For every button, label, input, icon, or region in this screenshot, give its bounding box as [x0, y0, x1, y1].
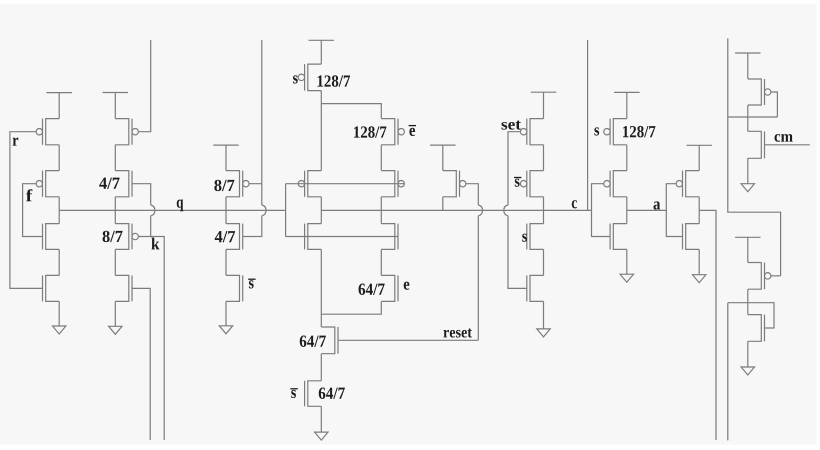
- nmos f: [43, 224, 60, 250]
- pmos 128/7 s (col F): [604, 119, 627, 145]
- wire top-right input vertical: [728, 38, 781, 275]
- wire: [380, 145, 382, 171]
- pmos a input (col G): [676, 171, 699, 197]
- label k: [151, 238, 159, 250]
- pmos 8/7 (col C): [226, 171, 249, 197]
- wire: [698, 197, 700, 224]
- power VDD rail col D: [309, 40, 335, 64]
- nmos pair right: [381, 224, 398, 250]
- label 8/7 col B: [103, 231, 123, 242]
- ground col E: [537, 301, 550, 337]
- wire: [543, 249, 545, 275]
- nmos 64/7 e: [381, 275, 398, 301]
- ground top-right: [741, 158, 754, 191]
- wire 4/7 gate down with hop over q bus: [132, 184, 155, 237]
- label q: [177, 199, 184, 211]
- power VDD rail col B: [103, 93, 129, 119]
- label cm: [775, 134, 793, 142]
- wire: [380, 249, 382, 275]
- wire col C input vertical from top with hop: [243, 40, 266, 237]
- label sbar bottom: [290, 389, 297, 398]
- nmos 4/7 (col C): [226, 224, 243, 250]
- wire: [320, 104, 322, 171]
- pmos reset pull-up: [443, 171, 466, 197]
- wire reset net: [338, 339, 478, 341]
- wire q bus: [59, 209, 285, 211]
- power VDD rail col F: [614, 92, 640, 118]
- pmos pair left: [298, 171, 321, 197]
- wire: [58, 145, 60, 171]
- wire: [626, 145, 628, 171]
- wire bottom-left port: [727, 303, 729, 441]
- ground col B: [109, 301, 122, 334]
- label r: [13, 138, 19, 146]
- nmos 64/7 reset: [321, 327, 338, 354]
- wire set gate net with hop: [504, 132, 527, 289]
- wire: [626, 197, 628, 224]
- nmos cm: [748, 131, 765, 158]
- ground col D: [315, 406, 328, 440]
- pmos f: [36, 171, 59, 197]
- power VDD rail col C: [213, 145, 239, 171]
- power VDD rail col A: [46, 93, 71, 119]
- wire c gate net col F: [592, 184, 611, 237]
- wire: [543, 145, 545, 171]
- power VDD rail top-right: [735, 53, 761, 79]
- wire a net: [627, 209, 667, 211]
- wire: [58, 197, 60, 224]
- label 64/7 bottom: [319, 388, 345, 399]
- wire node: [728, 116, 778, 118]
- ground col C: [219, 301, 232, 333]
- label 4/7 col C: [215, 231, 235, 242]
- nmos 4/7 (col B): [115, 171, 132, 197]
- wire: [747, 105, 749, 131]
- label c: [572, 200, 577, 208]
- pmos pair right: [381, 171, 404, 197]
- pmos c input (col F): [604, 171, 627, 197]
- wire drain merge: [321, 301, 381, 314]
- wire reset gate vertical with hop: [466, 184, 483, 341]
- wire: [442, 197, 444, 211]
- nmos c input (col F): [610, 224, 627, 250]
- wire: [320, 197, 322, 224]
- wire branch to ebar pmos: [321, 104, 381, 119]
- wire bottom-right gate net: [728, 303, 774, 328]
- wire: [747, 289, 749, 314]
- label f: [26, 189, 32, 201]
- label set: [502, 120, 521, 129]
- pmos 128/7 s (top): [298, 64, 321, 91]
- wire c port to top: [587, 40, 589, 210]
- label s col E: [522, 234, 527, 242]
- label 128/7 col F: [623, 126, 655, 137]
- nmos s (col E): [527, 224, 544, 250]
- label s (top pmos gate): [293, 75, 298, 83]
- pmos B1 (gate to top port): [115, 119, 138, 145]
- wire: [225, 249, 227, 275]
- wire: [320, 91, 322, 104]
- label 4/7 col B: [99, 178, 119, 189]
- label 64/7 reset row: [300, 336, 326, 347]
- label sbar col C: [248, 279, 255, 288]
- nmos 64/7 sbar (bottom): [305, 381, 322, 407]
- pmos sbar (col E): [520, 171, 543, 197]
- power VDD rail reset pmos: [430, 145, 456, 171]
- wire: [543, 197, 545, 224]
- pmos 8/7 k (col B): [115, 224, 138, 250]
- pmos r (top left): [36, 119, 59, 145]
- nmos a input (col G): [683, 224, 700, 250]
- label s col F: [594, 127, 599, 135]
- label e: [404, 282, 410, 290]
- wire: [114, 197, 116, 224]
- label ebar: [409, 126, 416, 136]
- ground col G: [693, 249, 706, 282]
- wire gate link W1: [286, 183, 405, 185]
- nmos bottom-right: [748, 315, 765, 342]
- nmos sbar (col C): [226, 275, 243, 301]
- wire: [380, 197, 382, 224]
- wire col G output down: [699, 210, 716, 440]
- wire gate link W2: [286, 236, 398, 238]
- wire pmos bottom-right gate stub: [771, 275, 781, 277]
- wire pmos B1 gate to top port: [138, 40, 151, 132]
- wire a gate net col G: [666, 184, 682, 237]
- label reset: [443, 328, 472, 337]
- label sbar col E: [514, 178, 521, 187]
- nmos set (col E): [527, 275, 544, 301]
- label a: [653, 201, 660, 209]
- pmos 128/7 ebar: [381, 119, 404, 145]
- power VDD rail col E: [531, 92, 557, 118]
- label 128/7 ebar: [354, 126, 386, 137]
- ground bottom-right: [741, 341, 754, 375]
- wire f gate net: [23, 184, 43, 237]
- nmos B4: [115, 275, 132, 301]
- wire: [58, 249, 60, 275]
- nmos r (bottom left): [43, 275, 60, 301]
- wire pmos diode gate loop: [771, 92, 778, 117]
- wire k net 8/7 gate: [138, 237, 164, 441]
- power VDD rail col G: [686, 145, 712, 170]
- label 64/7 e row: [359, 284, 385, 295]
- wire: [320, 249, 322, 327]
- wire nmos B4 gate down to bottom port: [132, 288, 150, 440]
- pmos set: [520, 119, 543, 145]
- wire latch output bus: [321, 209, 591, 211]
- wire: [114, 249, 116, 275]
- ground col A: [53, 301, 66, 334]
- wire: [320, 354, 322, 381]
- label 8/7 col C: [214, 180, 234, 191]
- wire: [225, 197, 227, 224]
- nmos pair left: [305, 224, 322, 250]
- wire cm net: [765, 144, 810, 146]
- ground col F: [620, 249, 633, 282]
- pmos bottom-right: [748, 263, 771, 290]
- pmos diode top-right: [748, 79, 771, 105]
- wire gate link vertical: [285, 184, 287, 237]
- wire r gate net: [10, 132, 43, 289]
- label 128/7 top: [318, 75, 350, 86]
- wire: [114, 145, 116, 171]
- power VDD rail bottom-right: [735, 237, 761, 262]
